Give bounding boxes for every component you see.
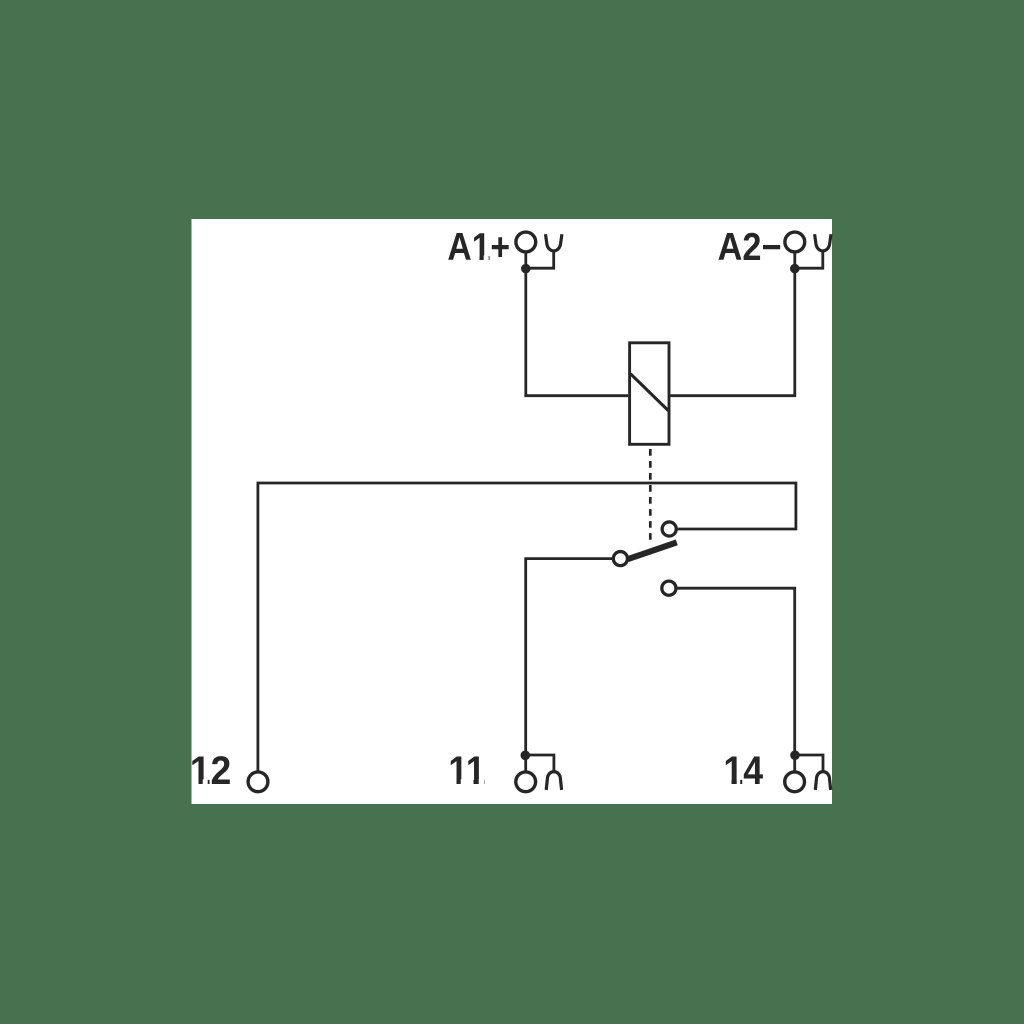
svg-text:A1+: A1+ bbox=[447, 226, 510, 269]
svg-text:11: 11 bbox=[448, 749, 485, 793]
svg-text:14: 14 bbox=[723, 749, 763, 793]
svg-text:A2−: A2− bbox=[718, 226, 782, 269]
svg-text:12: 12 bbox=[190, 749, 232, 793]
